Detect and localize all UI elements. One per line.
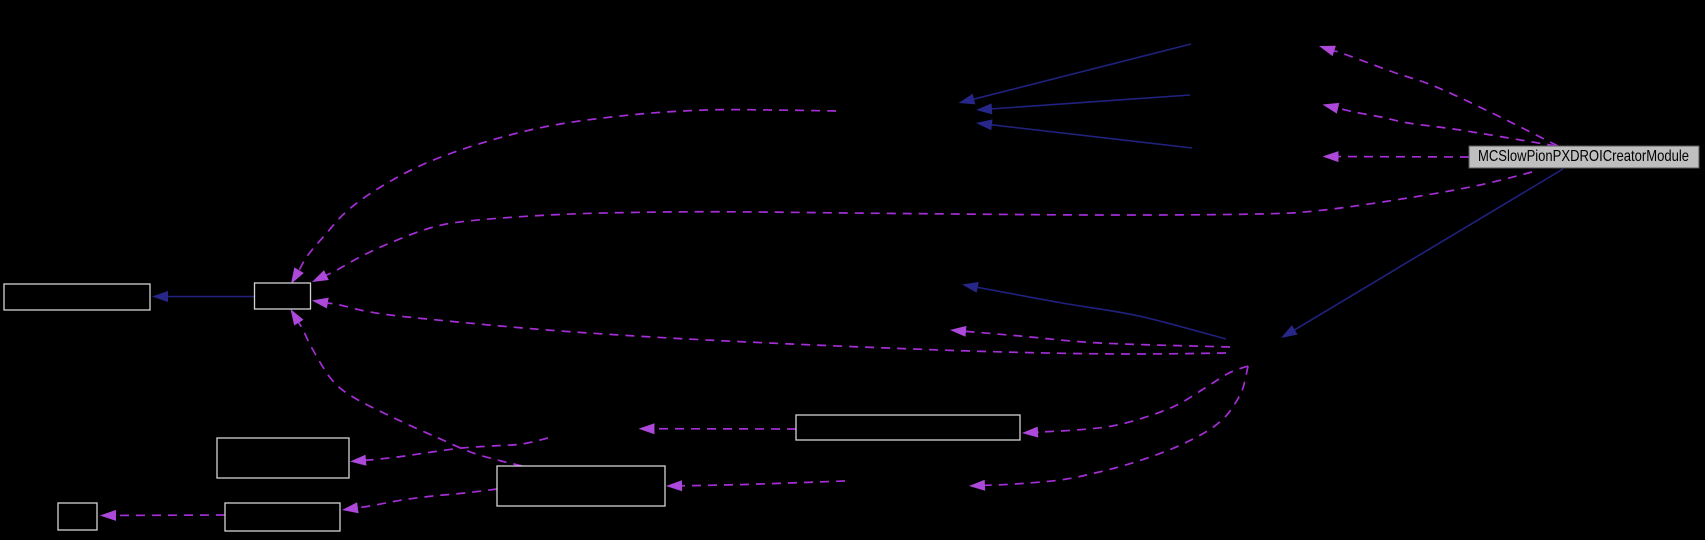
svg-text:MCSlowPionPXDROICreatorModule: MCSlowPionPXDROICreatorModule xyxy=(1478,148,1689,165)
